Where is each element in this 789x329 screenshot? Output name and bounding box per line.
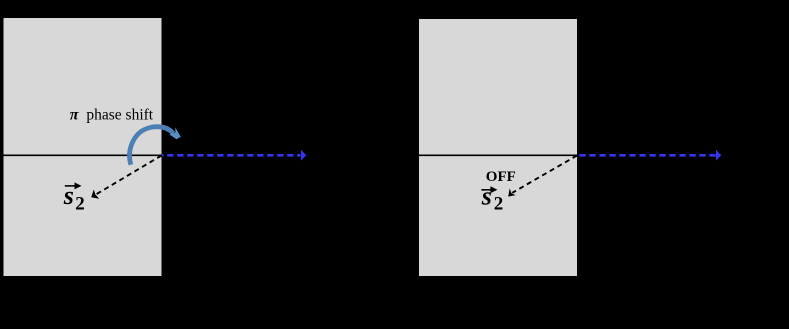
right blue beam arrowhead bbox=[716, 150, 721, 161]
pi phase shift arrowhead bbox=[170, 127, 181, 139]
svg-text:2: 2 bbox=[494, 193, 504, 214]
right mirror slab bbox=[419, 19, 577, 276]
svg-text:s: s bbox=[481, 182, 492, 211]
right blue dashed beam bbox=[579, 154, 715, 157]
left mirror slab bbox=[4, 18, 162, 276]
left blue beam arrowhead bbox=[301, 150, 306, 161]
svg-text:phase shift: phase shift bbox=[86, 106, 153, 123]
right s2 vector arrowhead bbox=[508, 188, 515, 196]
svg-text:2: 2 bbox=[75, 194, 85, 215]
left axis line bbox=[4, 154, 162, 156]
left s2 vector arrowhead bbox=[91, 190, 99, 199]
svg-text:π: π bbox=[70, 107, 80, 124]
right axis line bbox=[419, 154, 577, 156]
right s2 overbar arrow bbox=[481, 189, 493, 191]
pi phase shift curved arrow bbox=[130, 127, 174, 165]
right s2 dashed vector bbox=[512, 156, 577, 193]
left s2 dashed vector bbox=[96, 156, 162, 195]
left blue dashed beam bbox=[162, 154, 301, 157]
left s2 overbar arrow bbox=[65, 185, 78, 187]
